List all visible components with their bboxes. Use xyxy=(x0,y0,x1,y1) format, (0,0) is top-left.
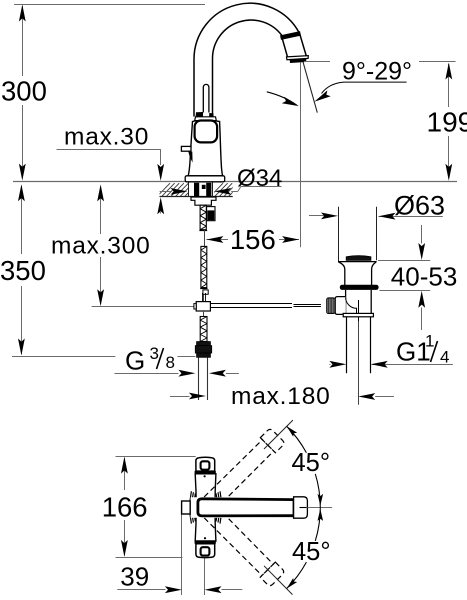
svg-text:166: 166 xyxy=(102,491,148,522)
ghost spout rotated +45 xyxy=(196,498,285,587)
dimension 300 top arrow xyxy=(19,5,26,22)
dimension G 3/8 line xyxy=(115,373,179,375)
svg-text:45°: 45° xyxy=(292,449,331,477)
dimension 39 left arrow xyxy=(165,586,182,593)
dimension 40-53 top arrow xyxy=(418,243,425,260)
svg-text:max.300: max.300 xyxy=(51,232,151,259)
45 deg arc lower xyxy=(287,507,321,588)
rod middle end cap xyxy=(200,288,207,290)
dimension 300 bottom arrow xyxy=(19,164,26,181)
plan spout tip extension xyxy=(307,507,332,509)
dimension max.180 right arrow xyxy=(358,393,375,400)
dimension 39 line xyxy=(117,589,165,591)
popup horizontal rod xyxy=(210,303,292,305)
45 arc upper start arrow xyxy=(287,426,298,437)
dimension O63 right arrow xyxy=(379,213,396,220)
plan body dot upper xyxy=(204,475,206,477)
spout aerator xyxy=(287,56,309,60)
svg-text:max.30: max.30 xyxy=(64,123,149,150)
dimension G 3/8 right arrow xyxy=(209,370,226,377)
popup junction stub xyxy=(202,293,204,302)
dimension max.300 line xyxy=(100,188,102,234)
svg-text:39: 39 xyxy=(120,562,149,592)
plan top cap hole xyxy=(201,461,210,469)
plan spout tip cap xyxy=(294,497,308,518)
popup rod clamp block xyxy=(207,207,215,221)
deck hole edge right xyxy=(212,182,214,197)
dimension 199 top extension xyxy=(304,61,330,63)
drain bottom ring xyxy=(343,313,373,316)
dimension 199 line xyxy=(448,64,450,107)
spout nozzle section xyxy=(282,34,306,57)
45 arc lower end arrow xyxy=(287,578,298,589)
dimension 300 line xyxy=(22,6,24,76)
dimension 350 bottom extension line xyxy=(12,356,115,358)
dimension G 3/8 left arrow xyxy=(178,370,195,377)
countertop deck line xyxy=(13,181,457,183)
dimension 166 top extension xyxy=(116,456,196,458)
ghost spout axis line lower xyxy=(264,566,293,595)
drain knurled nut xyxy=(327,298,336,314)
stud end cap xyxy=(199,230,207,232)
threaded rod middle xyxy=(201,246,207,287)
svg-text:300: 300 xyxy=(1,76,47,107)
plan center line xyxy=(204,558,206,595)
faucet spout outer outline xyxy=(194,3,299,116)
deck hole edge left xyxy=(188,182,190,197)
dimension 166 bottom arrow xyxy=(121,540,128,557)
svg-text:G: G xyxy=(125,346,145,376)
svg-text:3: 3 xyxy=(150,344,159,363)
dimension 166 line xyxy=(124,458,126,490)
drain body xyxy=(346,290,372,313)
deck bottom line xyxy=(160,196,233,198)
label 9-29 leader xyxy=(322,82,407,93)
svg-text:Ø34: Ø34 xyxy=(237,165,282,192)
dimension O34 left arrow xyxy=(171,188,188,195)
dimension 350 top arrow xyxy=(18,184,25,201)
dimension O63 line xyxy=(309,215,324,217)
dimension max.300 bottom arrow xyxy=(97,289,104,306)
drain flange extension right xyxy=(376,207,378,260)
base plate xyxy=(185,176,225,182)
dimension 199 top arrow xyxy=(445,63,452,80)
dimension G1 1/4 left arrow xyxy=(329,361,346,368)
shank wall left xyxy=(194,183,199,197)
plan spout xyxy=(198,499,294,516)
dimension 156 right arrow xyxy=(282,236,299,243)
drain plug cap xyxy=(346,256,371,261)
dimension 39 extension left xyxy=(181,515,183,596)
plan body bottom cap xyxy=(196,544,215,558)
spout outlet extension line xyxy=(300,63,302,248)
body collar xyxy=(195,117,217,121)
dimension 156 line xyxy=(206,239,228,241)
threaded stud upper xyxy=(200,205,206,230)
G1 1/4 underline leader xyxy=(372,364,453,366)
plan lever tab xyxy=(182,501,191,514)
plan body top cap xyxy=(196,457,215,471)
threaded rod lower xyxy=(200,317,207,342)
popup junction block xyxy=(196,302,210,311)
45 deg arc upper xyxy=(287,426,321,507)
handle lever rod xyxy=(203,84,209,112)
max.30 arrow at deck top xyxy=(157,164,164,181)
deck hatching right xyxy=(210,183,246,196)
plan bottom cap hole xyxy=(201,547,210,555)
dimension 166 top arrow xyxy=(121,457,128,474)
dimension O63 left arrow xyxy=(321,213,338,220)
svg-text:350: 350 xyxy=(0,255,46,286)
side lever tab xyxy=(181,146,191,151)
svg-text:199: 199 xyxy=(427,107,467,138)
dimension max.300 top arrow xyxy=(97,184,104,201)
svg-text:Ø63: Ø63 xyxy=(394,190,445,220)
faucet spout inner outline xyxy=(213,20,283,116)
spray angle line xyxy=(303,62,317,113)
svg-text:45°: 45° xyxy=(292,538,331,566)
label 9-29 arrow xyxy=(314,90,330,101)
ghost spout axis line upper xyxy=(264,420,293,449)
drain tailpipe xyxy=(346,317,348,373)
faucet body outline xyxy=(188,121,222,176)
dimension 40-53 top extension xyxy=(378,260,430,262)
faucet center line to junction xyxy=(203,295,205,302)
svg-text:max.180: max.180 xyxy=(231,383,331,410)
flexible hose xyxy=(198,358,200,401)
drain center line xyxy=(358,321,360,405)
spray angle arc arrow xyxy=(282,97,299,106)
dimension O34 right arrow xyxy=(214,188,231,195)
handle base wedge left xyxy=(196,112,203,117)
dimension 199 bottom arrow xyxy=(445,164,452,181)
svg-text:4: 4 xyxy=(440,348,449,367)
shank center tick xyxy=(202,185,206,189)
plan spout halo xyxy=(191,497,294,518)
faucet center line upper xyxy=(204,230,206,247)
dimension 40-53 bottom extension xyxy=(380,290,431,292)
max.30 leader line xyxy=(57,149,161,151)
max.30 arrow below deck xyxy=(157,197,164,214)
dimension 166 bottom extension xyxy=(116,557,183,559)
dimension max.180 left arrow xyxy=(189,393,206,400)
drain flange neck xyxy=(339,262,377,285)
plan spout joint xyxy=(293,498,295,517)
ghost spout rotated -45 xyxy=(196,428,285,517)
svg-text:8: 8 xyxy=(166,353,175,372)
45 arc lower start arrow xyxy=(318,509,324,521)
plan body top band xyxy=(195,471,216,474)
plan body xyxy=(195,474,216,541)
drain flange extension left xyxy=(338,207,340,261)
drain gasket xyxy=(340,285,379,290)
dimension 39 right arrow xyxy=(205,586,222,593)
plan body bottom band xyxy=(195,541,216,544)
cartridge rounded square xyxy=(195,121,218,143)
drain side inlet housing xyxy=(335,297,346,315)
svg-text:40-53: 40-53 xyxy=(391,261,458,291)
dimension max.180 line left xyxy=(170,396,190,398)
spray angle arc xyxy=(267,92,297,105)
shank wall right xyxy=(206,183,211,197)
dimension 350 bottom arrow xyxy=(18,339,25,356)
hose nut xyxy=(197,342,211,346)
plan body dot lower xyxy=(204,537,206,539)
dimension G1 1/4 right arrow xyxy=(371,361,388,368)
dimension 350 line xyxy=(21,186,23,254)
svg-text:9°-29°: 9°-29° xyxy=(342,57,412,85)
dimension 156 left arrow xyxy=(206,236,223,243)
drain flange top line xyxy=(338,261,377,263)
plan swivel collar left xyxy=(190,491,196,523)
mounting locknut xyxy=(191,197,216,205)
max.300 bottom extension line xyxy=(92,306,195,308)
dimension 300 top extension line xyxy=(14,4,205,6)
svg-text:156: 156 xyxy=(230,224,276,255)
side lever wedge xyxy=(188,152,192,163)
spout joint band xyxy=(281,33,301,37)
handle base wedge right xyxy=(209,113,213,117)
45 arc upper end arrow xyxy=(318,494,324,506)
G 3/8 leader xyxy=(177,356,195,358)
drain plug stem xyxy=(358,300,360,321)
plan swivel collar right xyxy=(216,491,222,523)
dimension 40-53 bottom arrow xyxy=(418,291,425,308)
svg-text:1: 1 xyxy=(425,332,434,351)
faucet center line below junction xyxy=(203,311,205,317)
